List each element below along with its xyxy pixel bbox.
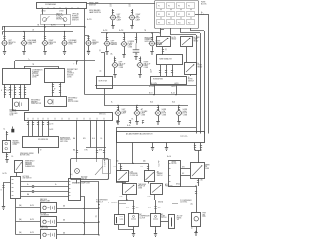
svg-text:F11: F11 <box>178 22 181 24</box>
svg-text:HORN SW RING: HORN SW RING <box>153 78 163 80</box>
park lamp relay K2 <box>181 37 193 47</box>
wire fuse to bus right 2 <box>181 28 201 33</box>
label license lamp <box>128 41 134 48</box>
label LG on bus <box>32 30 35 32</box>
wire horn relay to ring <box>190 74 192 76</box>
svg-text:B+/TN: B+/TN <box>119 30 123 32</box>
band right text <box>180 134 188 139</box>
module M1 pin conn 2a <box>9 88 11 90</box>
label B W 2 <box>176 184 181 186</box>
svg-text:LAMP SWITCH: LAMP SWITCH <box>89 11 102 14</box>
svg-text:W/S WIPER SW: W/S WIPER SW <box>38 139 49 141</box>
svg-text:PRESSURE: PRESSURE <box>130 173 138 175</box>
label M1 pins <box>7 90 13 92</box>
headlamp dimmer relay K1 <box>157 37 171 47</box>
junction R out <box>98 204 99 205</box>
wire fuse to bus right 3 <box>191 28 205 31</box>
label 2LG clutch1 <box>136 207 140 209</box>
stub B1 down <box>126 194 128 200</box>
blower resistor box <box>115 215 125 225</box>
svg-text:WINDSHIELD WIPER: WINDSHIELD WIPER <box>20 153 34 155</box>
wire switch feed to fuse block <box>87 3 155 5</box>
bold feed stub <box>12 127 14 129</box>
junction lamp box 1 <box>98 207 99 208</box>
svg-text:B+: B+ <box>110 4 112 6</box>
tdr pivot <box>133 185 134 186</box>
fuse cell r3c3 <box>177 20 185 25</box>
label B LG/TN run A <box>151 83 157 85</box>
fuse cell r2c1 <box>157 12 165 17</box>
junction antenna gnd <box>195 231 196 232</box>
left texts wm <box>158 161 160 168</box>
connector box pins <box>28 118 104 120</box>
label M2 pins <box>54 88 56 90</box>
ground head lamp L <box>22 52 25 55</box>
ground left column <box>2 207 5 210</box>
wire drop cluster lamp 1 <box>118 105 120 110</box>
connector ts1 <box>159 71 161 73</box>
jog to clutch 2 <box>154 201 157 214</box>
column vertical MA <box>76 120 78 159</box>
wire backup lamp L ground <box>114 68 116 74</box>
note B BLK A <box>158 200 163 203</box>
module M1 pin wire 4 <box>20 84 22 98</box>
svg-text:CONN: CONN <box>119 67 123 69</box>
svg-text:P: P <box>104 161 105 163</box>
wire dimmer relay out <box>162 47 164 55</box>
wire r3 stub 1 <box>117 121 119 125</box>
svg-text:NOTE: NOTE <box>10 114 14 116</box>
svg-text:TN: TN <box>144 30 146 32</box>
label B+2 A1 <box>114 166 117 168</box>
svg-text:B+/PK: B+/PK <box>50 129 54 131</box>
label hazard flasher <box>13 140 20 147</box>
label backup lamp L <box>119 62 125 69</box>
band gnd stub 2 <box>166 142 168 147</box>
svg-text:F9: F9 <box>158 22 160 24</box>
wire drop horn high <box>178 105 180 110</box>
wm pin 3 <box>169 175 171 177</box>
module M2 pin wire 1 <box>52 82 54 97</box>
wire head lamp R to ground <box>64 46 66 51</box>
connector pin down 4 <box>42 120 44 136</box>
steering column connector box <box>25 113 113 121</box>
svg-text:FOR M.C.P.: FOR M.C.P. <box>96 201 104 203</box>
column conn BL <box>103 151 105 153</box>
wire feed backup lamp R <box>140 57 142 63</box>
line switch connector R <box>69 179 81 201</box>
dimmer switch detail outline <box>41 15 71 25</box>
svg-text:NOTE: NOTE <box>162 113 166 115</box>
label above lamp box 2 <box>40 213 49 217</box>
svg-text:TN: TN <box>37 25 39 27</box>
svg-text:LEFT: LEFT <box>119 62 123 64</box>
svg-text:SWITCH: SWITCH <box>145 41 151 43</box>
svg-text:LP NO: LP NO <box>41 10 46 12</box>
svg-text:STOP: STOP <box>136 18 140 20</box>
left ground conn <box>2 186 4 188</box>
label wire lamp box 2 <box>30 219 34 221</box>
wire fuse row2 to right bus <box>195 14 208 16</box>
connector lamp H <box>151 38 153 40</box>
svg-text:LEFT: LEFT <box>117 14 121 16</box>
park relay pivot <box>189 38 190 39</box>
svg-text:WIPER: WIPER <box>67 71 72 73</box>
wire drop horn low <box>158 105 160 110</box>
lamp box 1 to column <box>57 208 99 210</box>
label B TN low <box>85 150 88 152</box>
R out top <box>80 182 99 235</box>
label LG/TN run A <box>174 83 178 85</box>
hazard warning switch box <box>15 161 23 173</box>
connector pin down 3 <box>38 120 40 136</box>
washer pump motor box <box>13 99 29 111</box>
label washer pump <box>31 99 41 105</box>
label B LG 1 <box>120 196 124 198</box>
wire drop lamp C <box>44 27 46 40</box>
lp cutoff contact <box>119 173 127 181</box>
column conn MA <box>76 151 78 153</box>
marker lamp symbol 3 <box>43 233 55 237</box>
wire r3 stub 3 <box>142 121 144 125</box>
wire license ground <box>124 47 126 55</box>
label B R wm <box>182 173 184 175</box>
wire backup lamp R ground <box>140 68 142 74</box>
ground backup lamp R <box>138 75 141 78</box>
label B+ line2 <box>27 184 29 186</box>
svg-text:CLUTCH: CLUTCH <box>161 217 166 219</box>
ground marker lamp <box>87 52 90 55</box>
label W out <box>40 149 42 151</box>
svg-text:CONN: CONN <box>144 67 148 69</box>
connector horn low <box>157 108 159 110</box>
svg-text:THERMO: THERMO <box>157 173 163 175</box>
wire feed right park lamp <box>85 36 89 41</box>
conn L pin 1 <box>12 179 14 181</box>
label B TN low2 <box>99 150 102 152</box>
label 2A lamp box 3 <box>19 231 22 234</box>
wiper motor inner text <box>172 161 177 165</box>
label AC heater vacuum switch <box>126 133 152 136</box>
svg-text:LINE SWITCH: LINE SWITCH <box>23 178 32 180</box>
connector backup lamp R <box>139 59 141 61</box>
fuse cell r1c4 <box>187 3 195 9</box>
note wiper motor <box>20 153 34 157</box>
svg-text:1 B+: 1 B+ <box>110 53 113 55</box>
fuse cell r3c1 <box>157 20 165 25</box>
washer pump motor symbol <box>14 102 21 108</box>
label W lamp box 3 <box>63 233 66 235</box>
module M1 pin wire 5 <box>24 84 26 98</box>
svg-text:CONN CONN: CONN CONN <box>180 136 188 138</box>
lamp front marker R <box>149 41 156 46</box>
lamp horn high <box>176 111 183 116</box>
wm to switch 2 <box>180 175 190 177</box>
module M1 pin wire 1 <box>4 84 6 98</box>
junction bus1 B <box>23 31 24 32</box>
svg-text:HORN: HORN <box>188 79 192 81</box>
label hazard feed <box>4 128 6 130</box>
wiper sw pivot <box>201 165 202 166</box>
label feed backup lamp L <box>110 53 113 55</box>
module M1 pin conn 1a <box>4 88 6 90</box>
stub to switch A1 <box>120 163 122 171</box>
run B LG <box>85 94 196 96</box>
connector pin conn 3 <box>37 123 39 125</box>
wire park lamp L to ground <box>4 46 6 51</box>
svg-text:T+: T+ <box>28 59 30 61</box>
stub B2 down <box>154 194 156 200</box>
feed line lamp box 1 <box>16 207 41 209</box>
horn ring inner label <box>153 78 163 80</box>
band gnd stub 1 <box>152 142 154 147</box>
column vertical BW <box>90 120 92 148</box>
lamp tail lamp L <box>110 15 117 20</box>
marker lamp symbol 2 <box>43 220 55 224</box>
wire feed from switch down (B+/TN) <box>84 9 86 95</box>
label B+2 A2 <box>141 166 144 168</box>
wire ts out 2 <box>166 65 168 76</box>
wire tail lamp L ground <box>112 20 114 25</box>
label feed backup lamp R <box>135 53 138 55</box>
headlamp switch inner label <box>45 3 56 6</box>
cluster pin 3 <box>104 159 106 162</box>
horn relay pivot <box>193 64 194 65</box>
power antenna motor box <box>192 213 201 227</box>
antenna down <box>196 226 198 233</box>
svg-text:B LG: B LG <box>126 207 129 209</box>
svg-text:B: B <box>1 190 2 192</box>
clutch 2 inner <box>153 215 158 219</box>
wire horn low ground <box>158 116 160 121</box>
note block steering column <box>56 13 64 20</box>
connector tail lamp L <box>112 11 114 13</box>
hazard switch pivot <box>21 162 22 163</box>
right bus vertical 3 <box>204 31 206 134</box>
svg-text:HORN: HORN <box>183 109 187 111</box>
connector lamp G <box>123 38 125 40</box>
svg-text:LINE SW: LINE SW <box>81 178 87 180</box>
svg-text:F2: F2 <box>168 5 170 7</box>
junction clutch1 gnd <box>133 230 134 231</box>
label busC 3 <box>172 102 176 104</box>
label front marker L <box>111 41 117 47</box>
label compressor clutch 2 <box>161 213 166 219</box>
svg-text:RIGHT: RIGHT <box>136 14 141 16</box>
junction bus TN H <box>151 32 152 33</box>
wiper switch box <box>23 137 59 148</box>
label hazard switch <box>25 161 35 168</box>
svg-text:WIPER: WIPER <box>205 164 210 166</box>
svg-text:B L: B L <box>132 119 134 121</box>
lamp box 3 to column <box>57 234 99 236</box>
svg-text:B W (2): B W (2) <box>176 184 181 186</box>
conn switch A2 <box>147 167 149 169</box>
jog to clutch 1 <box>127 201 134 214</box>
connector r3 stub 2 <box>129 121 131 123</box>
svg-text:SWITCH: SWITCH <box>188 80 194 82</box>
svg-text:PUMP MOTOR: PUMP MOTOR <box>31 103 41 105</box>
wire fuse to dimmer relay <box>160 28 162 36</box>
label wiper switch <box>205 164 210 169</box>
wire marker L ground <box>106 46 108 51</box>
svg-text:MTR: MTR <box>203 216 206 218</box>
right column down <box>196 186 198 212</box>
label 2 mid <box>99 50 101 52</box>
svg-text:B+/TN: B+/TN <box>103 30 107 32</box>
label MA <box>73 137 75 140</box>
low pressure cutoff switch <box>117 171 129 182</box>
junction bus1 A <box>4 26 5 27</box>
svg-text:CONN: CONN <box>13 144 17 146</box>
ground antenna <box>194 233 197 236</box>
svg-text:B+/TN: B+/TN <box>3 173 7 175</box>
fuse cell r3c4 <box>187 20 195 25</box>
ground marker L <box>105 52 108 55</box>
right bus vertical 2 <box>200 33 202 134</box>
label B W wm <box>182 167 185 169</box>
svg-text:INTERMITTENT: INTERMITTENT <box>60 137 70 139</box>
bus C panel lamps <box>104 105 188 107</box>
junction y163 <box>132 163 133 164</box>
label tail lamp L <box>117 14 121 21</box>
lamp license <box>121 42 128 47</box>
ground tail lamp L <box>111 26 114 29</box>
ground capacitor <box>134 57 137 60</box>
ground band 1 <box>151 148 154 151</box>
line 3 conn <box>32 191 34 193</box>
svg-text:HOT SIDE: HOT SIDE <box>81 176 88 178</box>
junction clutch2 gnd <box>155 230 156 231</box>
label 2A left <box>116 159 119 162</box>
junction lamp box 2 <box>98 221 99 222</box>
svg-text:B+: B+ <box>201 12 203 14</box>
fuse cell r2c4 <box>187 12 195 17</box>
label horn switch <box>188 77 194 83</box>
connector ts2 <box>165 71 167 73</box>
bus LG left hook <box>2 32 4 35</box>
junction jog <box>126 199 127 200</box>
fuse contact at 171,9.5 <box>170 9 171 10</box>
line L to R 4 <box>21 196 68 198</box>
wire drop lamp A <box>4 27 6 40</box>
module M1 pin conn 5a <box>24 88 26 90</box>
svg-text:HORN: HORN <box>162 109 166 111</box>
run T+ feed <box>15 60 95 62</box>
svg-text:LICENSE: LICENSE <box>128 41 134 43</box>
wiper motor assembly box <box>169 161 181 187</box>
label lp cutoff <box>130 171 139 176</box>
ground park lamp R <box>43 52 46 55</box>
svg-text:HIGH: HIGH <box>183 111 187 113</box>
label W lamp box 1 <box>63 206 66 208</box>
label run B left <box>149 92 153 94</box>
svg-text:F5: F5 <box>158 14 160 16</box>
label ac low press <box>177 215 183 221</box>
svg-text:COLUMN: COLUMN <box>141 111 147 113</box>
label run B right <box>171 92 176 94</box>
connector pin conn 1 <box>27 123 29 125</box>
wire stop sw down <box>104 88 106 105</box>
module M1 pin conn 3b <box>14 93 16 95</box>
svg-text:LEFT: LEFT <box>122 109 126 111</box>
label marker lamp <box>92 40 98 46</box>
label wiper switch inside <box>38 139 49 141</box>
svg-text:HOT SIDE: HOT SIDE <box>23 176 30 178</box>
time delay relay box <box>123 184 137 195</box>
lamp front marker L <box>104 41 111 46</box>
lamp horn low <box>155 111 162 116</box>
jog to resistor <box>119 201 128 216</box>
svg-text:B LG/TN: B LG/TN <box>151 83 157 85</box>
svg-text:STRG COL: STRG COL <box>56 15 64 17</box>
cluster pin 1 <box>76 159 78 162</box>
label backup lamp R <box>144 62 150 69</box>
fuse contact at 161,18.0 <box>160 17 161 18</box>
dimmer stub to bus left <box>44 24 46 27</box>
connector cluster lamp 1 <box>117 108 119 110</box>
conn R pin 5 <box>69 195 71 197</box>
right bus vertical 4 <box>208 14 210 134</box>
svg-text:HORN: HORN <box>198 65 202 67</box>
svg-text:CLUTCH B+: CLUTCH B+ <box>180 202 187 204</box>
label brake warn lamp <box>72 181 90 184</box>
label B+/TN <box>87 19 91 21</box>
module M1 pin wire 2 <box>10 84 12 98</box>
label feed tail lamp R <box>129 4 131 8</box>
label front marker R <box>156 41 162 47</box>
bold feed arrow B+ <box>11 129 14 133</box>
connector pin conn 2 <box>32 123 34 125</box>
dash note <box>172 203 178 205</box>
line L to R 2 <box>21 186 68 188</box>
label cluster lamp 1 <box>122 109 126 115</box>
wire ts out 1 <box>160 65 162 76</box>
dimmer lever right <box>60 16 66 22</box>
svg-text:B L: B L <box>12 156 14 158</box>
junction R out b2 <box>83 222 84 223</box>
svg-text:F7: F7 <box>178 14 180 16</box>
lamp box 2 to column <box>57 222 99 224</box>
horn relay K3 <box>185 63 197 75</box>
run y186 <box>172 186 196 188</box>
wire drop cluster lamp 2 <box>136 105 138 110</box>
bridge band right <box>195 150 201 152</box>
conn R pin 1 <box>69 181 71 183</box>
lamp head lamp L <box>21 41 28 46</box>
svg-text:CONN VIEW: CONN VIEW <box>10 113 19 115</box>
hazard feed conn <box>6 133 8 135</box>
label head lamp R <box>68 39 77 46</box>
note resistor left <box>108 201 109 203</box>
label B W <box>83 138 86 140</box>
junction bus TN G <box>123 32 124 33</box>
connector pin down 5 <box>48 120 50 136</box>
label B left <box>0 190 3 192</box>
column conn BLG <box>96 151 98 153</box>
wiper switch right box <box>191 163 205 179</box>
svg-text:LG: LG <box>150 71 152 73</box>
svg-text:NOTE: NOTE <box>183 113 187 115</box>
line switch connector L <box>11 177 21 199</box>
ground cluster lamp 2 <box>135 122 138 125</box>
label bus B+/TN 2 <box>119 30 123 32</box>
svg-text:F12: F12 <box>188 22 191 24</box>
note resistor arrow <box>111 201 117 203</box>
wiper sw down <box>198 178 200 186</box>
connector horn high <box>178 108 180 110</box>
label stop lamp sw <box>99 81 108 83</box>
